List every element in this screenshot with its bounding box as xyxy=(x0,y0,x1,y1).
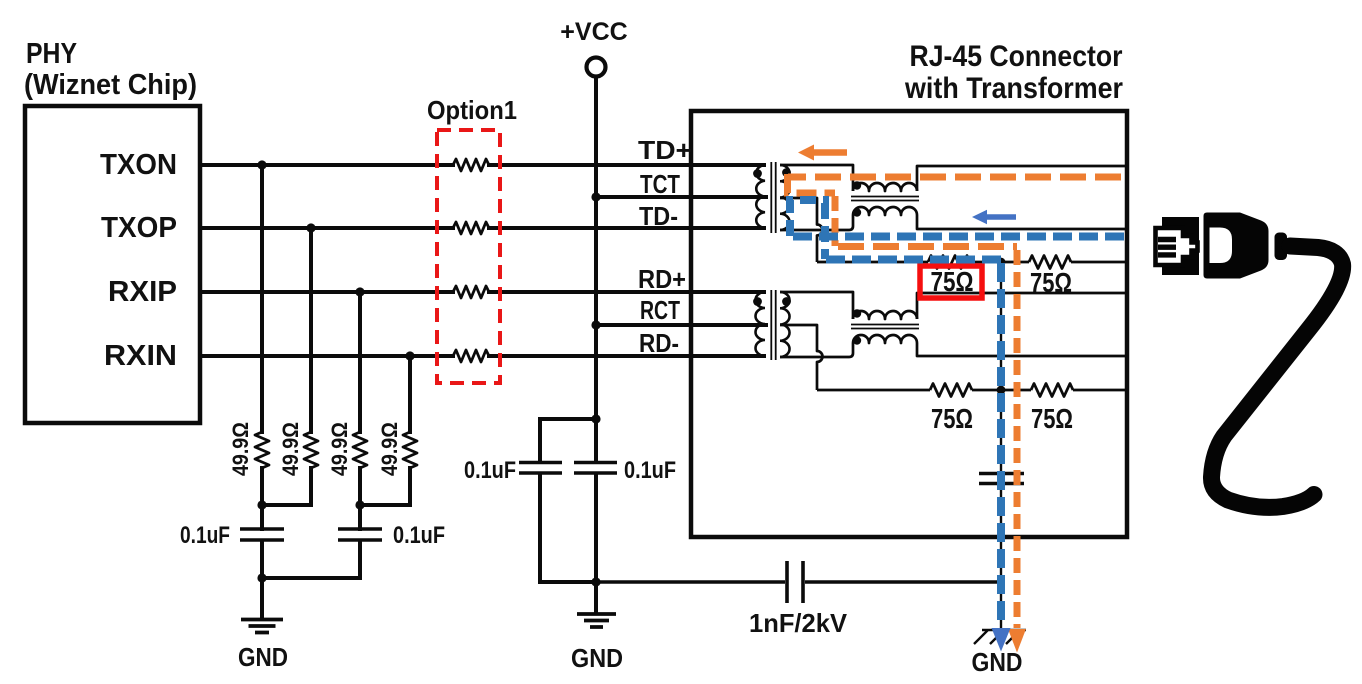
wire CM2 top out RD+ to pin xyxy=(917,293,1125,319)
highlight box around R9 value xyxy=(920,266,982,298)
svg-text:0.1uF: 0.1uF xyxy=(624,457,676,484)
svg-text:75Ω: 75Ω xyxy=(931,403,973,434)
wire vertical from RXIN node to R8 xyxy=(408,356,412,432)
wire termination row 2 xyxy=(817,389,1125,392)
wire T2 secondary top to choke CM2 xyxy=(780,292,853,319)
svg-text:with Transformer: with Transformer xyxy=(904,72,1123,105)
wire blue vertical to GND xyxy=(997,263,1005,627)
svg-text:75Ω: 75Ω xyxy=(931,266,974,297)
svg-text:0.1uF: 0.1uF xyxy=(180,522,230,549)
T2 secondary phase dot xyxy=(782,297,791,306)
wire CM1 top out TD+ to pin xyxy=(917,166,1125,191)
choke CM2 bottom winding xyxy=(853,335,917,343)
svg-text:+VCC: +VCC xyxy=(560,18,627,46)
ground G2 xyxy=(577,614,616,627)
CM2 bottom phase dot xyxy=(853,336,861,344)
svg-text:49.9Ω: 49.9Ω xyxy=(327,422,352,476)
resistor R11 75ohm xyxy=(930,384,972,397)
svg-text:49.9Ω: 49.9Ω xyxy=(278,422,303,476)
svg-text:TXOP: TXOP xyxy=(101,212,177,244)
blue current route xyxy=(790,200,1124,627)
resistor R10 75ohm xyxy=(1029,256,1071,269)
capacitor C5 plates xyxy=(979,474,1024,484)
wire TXON / TD+ xyxy=(200,163,764,167)
resistor R6 49.9ohm xyxy=(304,432,318,468)
wire orange vertical drop xyxy=(832,196,839,246)
wire TCT xyxy=(596,195,766,199)
wire C1 bottom to GND node xyxy=(260,541,264,619)
choke CM1 top winding xyxy=(853,183,917,191)
node VCC-C3 junction xyxy=(591,414,600,423)
choke CM1 core xyxy=(851,197,919,201)
wire T2 secondary center tap with hop xyxy=(780,325,823,390)
node row2 junction xyxy=(997,386,1006,395)
plug icon: cable curve xyxy=(1211,246,1342,507)
option box (red dashed) xyxy=(437,130,500,383)
RJ-45 connector box xyxy=(691,111,1127,537)
svg-text:GND: GND xyxy=(972,647,1023,677)
wire R5 bottom to node A xyxy=(260,468,264,529)
wire blue vertical drop xyxy=(821,203,829,259)
wire R7 bottom to node B xyxy=(358,468,362,529)
wire common termination node vertical xyxy=(1000,262,1002,537)
plug icon: small plug outline xyxy=(1156,228,1198,265)
CM1 top phase dot xyxy=(853,181,861,189)
orange arrowhead bottom xyxy=(1008,629,1026,653)
svg-text:0.1uF: 0.1uF xyxy=(464,457,516,484)
wire VCC branch to C3 xyxy=(540,419,596,582)
svg-text:49.9Ω: 49.9Ω xyxy=(228,422,253,476)
svg-text:49.9Ω: 49.9Ω xyxy=(377,422,402,476)
resistor R8 49.9ohm xyxy=(403,432,417,468)
chassis ground G3 xyxy=(974,630,1026,644)
transformer T2 core xyxy=(771,290,775,360)
wire orange horizontal TD+ return xyxy=(788,174,1121,181)
node A junction xyxy=(257,500,266,509)
svg-text:RXIN: RXIN xyxy=(104,340,177,372)
svg-text:75Ω: 75Ω xyxy=(1031,403,1073,434)
wire blue horizontal TD- return xyxy=(790,233,1124,241)
capacitor C2 0.1uF plates xyxy=(338,529,382,540)
resistor R7 49.9ohm xyxy=(353,432,367,468)
wire blue horizontal to node xyxy=(826,256,1001,264)
resistor R9 75ohm xyxy=(928,256,970,269)
wire blue loop at transformer xyxy=(790,200,829,236)
wire T1 secondary top to choke CM1 xyxy=(780,165,853,191)
svg-text:GND: GND xyxy=(571,643,623,673)
choke CM2 top winding xyxy=(853,311,917,319)
PHY chip U1 box xyxy=(25,106,200,423)
node GND-left junction xyxy=(257,573,266,582)
wire vertical from TXON node to R5 xyxy=(260,165,264,432)
label PHY (Wiznet Chip) xyxy=(24,38,197,101)
wire orange vertical to GND xyxy=(1014,250,1021,628)
wire vertical from RXIP node to R7 xyxy=(358,292,362,432)
wire R8 bottom to node B xyxy=(360,468,410,505)
blue direction arrow xyxy=(972,210,1016,224)
svg-text:TCT: TCT xyxy=(640,169,680,199)
node box bottom junction xyxy=(997,533,1006,542)
T2 primary phase dot xyxy=(753,297,762,306)
wire RXIN / RD- xyxy=(200,354,764,358)
node RXIP junction xyxy=(355,287,364,296)
wire T1 secondary bottom to choke CM1 xyxy=(780,215,853,230)
CM2 top phase dot xyxy=(853,309,861,317)
resistor R2 option xyxy=(453,222,489,234)
wire orange horizontal to node xyxy=(838,243,1017,250)
svg-text:RD-: RD- xyxy=(639,328,679,358)
resistor R4 option xyxy=(453,350,489,362)
transformer T1 core xyxy=(771,162,775,233)
blue arrowhead bottom xyxy=(992,628,1011,652)
T1 primary phase dot xyxy=(753,169,762,178)
transformer T1 primary coil xyxy=(756,165,765,228)
wire chassis stub below box xyxy=(1000,537,1002,630)
node GND-center junction xyxy=(591,577,600,586)
wire orange loop at transformer xyxy=(788,174,836,193)
wire T1 secondary center tap with hop xyxy=(780,198,823,262)
CM1 bottom phase dot xyxy=(853,208,861,216)
plug icon: collar bar xyxy=(1275,233,1288,261)
plug icon: pin bars xyxy=(1158,240,1176,255)
label RJ-45 Connector with Transformer xyxy=(904,40,1123,105)
svg-text:TD-: TD- xyxy=(639,201,678,231)
wire 1nF link left xyxy=(596,580,785,584)
choke CM2 core xyxy=(851,325,919,329)
orange direction arrow top xyxy=(798,145,847,161)
svg-text:GND: GND xyxy=(238,642,288,672)
wire R6 bottom to node A xyxy=(262,468,311,505)
svg-text:RD+: RD+ xyxy=(638,264,686,294)
capacitor C6 1nF/2kV plates xyxy=(787,561,803,603)
node TXON junction xyxy=(257,160,266,169)
capacitor C3 0.1uF plates xyxy=(519,463,562,474)
plug icon: cable plug body xyxy=(1204,213,1269,279)
node RXIN junction xyxy=(405,351,414,360)
node TCT junction xyxy=(591,192,600,201)
svg-text:75Ω: 75Ω xyxy=(1030,267,1072,298)
T1 secondary phase dot xyxy=(782,168,791,177)
choke CM1 bottom winding xyxy=(853,207,917,215)
orange current route xyxy=(788,174,1122,628)
svg-text:RCT: RCT xyxy=(640,295,680,325)
wire T2 secondary bottom to choke CM2 xyxy=(780,343,853,357)
node RCT junction xyxy=(591,320,600,329)
wire RXIP / RD+ xyxy=(200,290,764,294)
svg-text:PHY: PHY xyxy=(26,38,77,70)
wire VCC rail vertical xyxy=(594,77,598,582)
svg-text:RJ-45 Connector: RJ-45 Connector xyxy=(910,40,1123,73)
resistor R3 option xyxy=(453,286,489,298)
capacitor C4 0.1uF plates xyxy=(574,463,617,474)
wire GND stub G2 xyxy=(594,582,598,614)
wire vertical from TXOP node to R6 xyxy=(309,228,313,432)
svg-text:TD+: TD+ xyxy=(638,135,692,165)
wire termination row 1 xyxy=(817,261,1125,264)
wire C2 bottom to GND node xyxy=(262,541,360,578)
transformer T1 secondary coil xyxy=(780,165,790,230)
wire TXOP / TD- xyxy=(200,226,764,230)
transformer T2 primary coil xyxy=(756,292,766,356)
resistor R1 option xyxy=(453,159,489,171)
svg-text:1nF/2kV: 1nF/2kV xyxy=(749,608,848,638)
node TXOP junction xyxy=(306,223,315,232)
VCC terminal circle xyxy=(587,58,606,77)
svg-text:RXIP: RXIP xyxy=(108,276,177,308)
plug icon: jack body xyxy=(1162,217,1199,275)
ground G1 xyxy=(241,620,283,633)
wire 1nF link right xyxy=(805,580,1000,584)
resistor R12 75ohm xyxy=(1031,384,1073,397)
svg-text:(Wiznet Chip): (Wiznet Chip) xyxy=(24,69,197,101)
wire RCT xyxy=(596,323,766,327)
resistor R5 49.9ohm xyxy=(255,432,269,468)
node B junction xyxy=(355,500,364,509)
capacitor C1 0.1uF plates xyxy=(240,529,284,540)
ethernet plug icon xyxy=(1156,213,1343,508)
node row1 junction xyxy=(997,258,1006,267)
svg-text:0.1uF: 0.1uF xyxy=(393,522,445,549)
svg-text:Option1: Option1 xyxy=(427,95,517,125)
transformer T2 secondary coil xyxy=(780,292,790,357)
wire CM1 bottom out TD- to pin xyxy=(917,215,1125,229)
wire CM2 bottom out RD- to pin xyxy=(917,343,1125,356)
svg-text:TXON: TXON xyxy=(100,149,177,181)
